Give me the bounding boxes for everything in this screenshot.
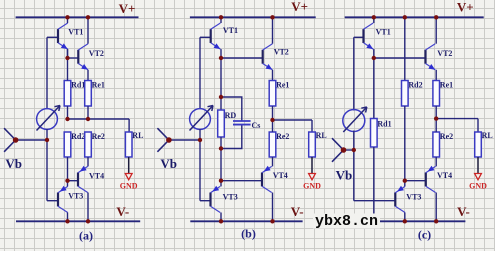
svg-text:VT3: VT3 bbox=[68, 192, 83, 201]
svg-text:VT4: VT4 bbox=[89, 172, 104, 181]
svg-text:V+: V+ bbox=[291, 0, 308, 14]
svg-text:(a): (a) bbox=[79, 229, 93, 243]
svg-text:Re2: Re2 bbox=[92, 132, 105, 141]
svg-text:VT4: VT4 bbox=[273, 171, 288, 180]
svg-text:Vb: Vb bbox=[336, 168, 353, 183]
svg-text:RL: RL bbox=[482, 131, 493, 140]
svg-text:Vb: Vb bbox=[160, 156, 177, 171]
svg-text:VT1: VT1 bbox=[376, 28, 391, 37]
svg-text:Rd2: Rd2 bbox=[408, 81, 422, 90]
svg-text:VT1: VT1 bbox=[223, 26, 238, 35]
svg-text:Rd1: Rd1 bbox=[377, 120, 391, 129]
svg-text:(c): (c) bbox=[418, 228, 431, 242]
svg-text:GND: GND bbox=[120, 182, 138, 191]
svg-text:VT3: VT3 bbox=[223, 193, 238, 202]
svg-text:V+: V+ bbox=[457, 0, 474, 15]
svg-text:RL: RL bbox=[132, 131, 143, 140]
svg-text:VT2: VT2 bbox=[274, 48, 289, 57]
svg-text:GND: GND bbox=[469, 182, 487, 191]
svg-text:V-: V- bbox=[116, 204, 129, 219]
svg-text:VT4: VT4 bbox=[437, 171, 452, 180]
svg-text:Re1: Re1 bbox=[440, 81, 453, 90]
svg-text:Re1: Re1 bbox=[276, 81, 289, 90]
svg-text:(b): (b) bbox=[241, 227, 256, 241]
svg-text:VT1: VT1 bbox=[68, 28, 83, 37]
svg-text:ybx8.cn: ybx8.cn bbox=[315, 213, 378, 230]
svg-text:VT3: VT3 bbox=[406, 193, 421, 202]
svg-text:V+: V+ bbox=[119, 1, 136, 16]
svg-text:V-: V- bbox=[457, 204, 470, 219]
svg-text:VT2: VT2 bbox=[437, 49, 452, 58]
svg-text:Re1: Re1 bbox=[92, 81, 105, 90]
svg-text:Re2: Re2 bbox=[440, 132, 453, 141]
svg-text:RD: RD bbox=[225, 111, 237, 120]
svg-text:V-: V- bbox=[291, 204, 304, 219]
svg-text:Cs: Cs bbox=[252, 121, 261, 130]
svg-text:VT2: VT2 bbox=[89, 49, 104, 58]
svg-text:RL: RL bbox=[316, 131, 327, 140]
svg-text:Rd2: Rd2 bbox=[71, 132, 85, 141]
svg-text:GND: GND bbox=[303, 182, 321, 191]
svg-text:Re2: Re2 bbox=[276, 132, 289, 141]
svg-text:Rd1: Rd1 bbox=[71, 81, 85, 90]
svg-text:Vb: Vb bbox=[5, 156, 22, 171]
